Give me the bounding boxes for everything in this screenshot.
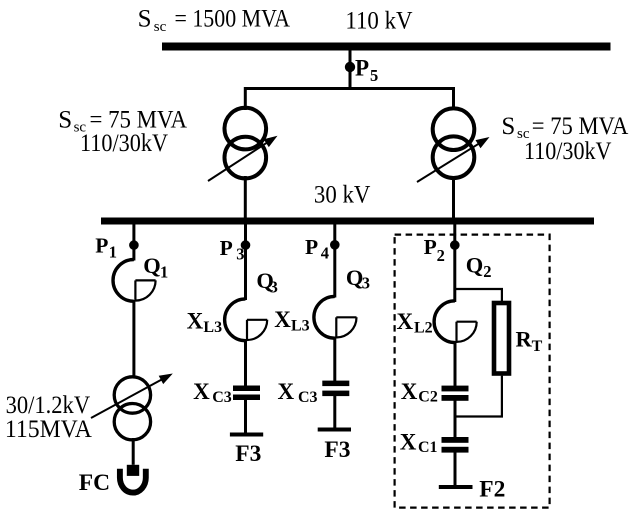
svg-text:110 kV: 110 kV xyxy=(345,7,412,34)
wire RT to junction xyxy=(456,376,502,417)
wire Q1 to furnace transformer xyxy=(132,300,135,378)
terminal F3 (P4) xyxy=(318,428,351,432)
wire P2 drop xyxy=(453,223,456,302)
svg-text:L3: L3 xyxy=(291,317,310,334)
wire T3 to furnace xyxy=(132,438,135,465)
wire T2 to 30kV bus xyxy=(452,176,455,219)
svg-text:C2: C2 xyxy=(418,389,438,406)
svg-text:3: 3 xyxy=(270,277,278,296)
svg-text:30 kV: 30 kV xyxy=(314,182,371,209)
reactor XL2 xyxy=(434,301,477,343)
resistor RT xyxy=(494,303,509,374)
svg-text:S: S xyxy=(58,106,72,133)
wire P5 vertical xyxy=(349,50,352,89)
wire XL3 to XC3 xyxy=(244,339,247,386)
wire P3 drop xyxy=(244,223,247,300)
wire XL3 to XC3 (P4) xyxy=(333,337,336,382)
terminal F3 (P3) xyxy=(230,433,263,437)
svg-text:C1: C1 xyxy=(418,439,438,456)
svg-text:C3: C3 xyxy=(298,389,318,406)
wire XC3 to F3 xyxy=(244,400,247,434)
svg-text:Q: Q xyxy=(143,253,161,278)
svg-text:2: 2 xyxy=(483,262,491,281)
svg-text:P: P xyxy=(95,234,108,258)
wire P4 drop xyxy=(333,223,336,298)
svg-text:sc: sc xyxy=(154,19,167,35)
capacitor XC3 (P4) xyxy=(322,381,349,387)
wire XC3 to F3 (P4) xyxy=(333,396,336,429)
svg-text:S: S xyxy=(501,113,515,140)
wire T1 to 30kV bus xyxy=(244,176,247,219)
busbar 30 kV xyxy=(101,218,594,225)
node P1 xyxy=(129,240,139,250)
wire left transformer drop xyxy=(244,87,247,110)
wire XL2 to XC2 xyxy=(454,341,457,386)
svg-text:FC: FC xyxy=(79,470,110,496)
svg-text:X: X xyxy=(397,309,414,334)
svg-text:F3: F3 xyxy=(324,437,350,463)
capacitor XC1 xyxy=(442,437,469,443)
reactor XL3 (P3) xyxy=(225,299,268,341)
transformer T2 tap arrow xyxy=(417,142,482,182)
node P2 xyxy=(450,240,460,250)
svg-text:X: X xyxy=(400,430,417,455)
svg-text:4: 4 xyxy=(321,243,329,262)
svg-text:= 1500 MVA: = 1500 MVA xyxy=(175,6,291,33)
wire P1 drop xyxy=(132,223,135,261)
svg-text:3: 3 xyxy=(236,244,244,263)
wire XC2 to junction and XC1 xyxy=(454,400,457,438)
svg-text:X: X xyxy=(187,309,204,334)
svg-text:X: X xyxy=(278,379,295,404)
reactor Q1 xyxy=(113,260,156,302)
transformer T1 tap arrow xyxy=(208,141,270,181)
transformer T1 xyxy=(225,108,267,179)
dashed enclosure F2 filter xyxy=(395,235,550,508)
capacitor XC2 xyxy=(442,386,469,392)
wire transformer feed horizontal xyxy=(245,87,454,90)
wire XC1 to F2 xyxy=(454,452,457,487)
furnace FC cup xyxy=(120,469,146,493)
svg-text:2: 2 xyxy=(437,246,445,265)
transformer T2 xyxy=(433,108,475,178)
node P4 xyxy=(330,240,340,250)
svg-text:110/30kV: 110/30kV xyxy=(80,130,168,157)
svg-text:1: 1 xyxy=(160,262,168,281)
wire right transformer drop xyxy=(452,87,455,110)
busbar 110 kV xyxy=(162,43,611,51)
svg-text:F3: F3 xyxy=(235,441,261,467)
terminal F2 xyxy=(439,485,473,489)
svg-text:R: R xyxy=(516,326,533,351)
furnace transformer tap arrow xyxy=(91,378,165,418)
svg-text:C3: C3 xyxy=(212,389,232,406)
svg-text:L2: L2 xyxy=(414,319,433,336)
svg-text:X: X xyxy=(401,379,418,404)
svg-text:1: 1 xyxy=(109,243,117,262)
svg-text:S: S xyxy=(138,6,152,33)
svg-text:T: T xyxy=(532,338,543,355)
wire branch to RT xyxy=(455,289,502,301)
svg-text:115MVA: 115MVA xyxy=(5,416,92,443)
node P3 xyxy=(241,240,251,250)
svg-text:X: X xyxy=(193,379,210,404)
furnace transformer T3 xyxy=(114,377,150,440)
capacitor XC3 (P3) xyxy=(233,386,260,392)
reactor XL3 (P4) xyxy=(314,296,357,338)
svg-text:P: P xyxy=(355,56,369,81)
svg-text:F2: F2 xyxy=(479,476,505,502)
svg-text:P: P xyxy=(424,235,437,259)
svg-text:110/30kV: 110/30kV xyxy=(524,138,612,165)
svg-text:P: P xyxy=(305,235,318,259)
svg-text:5: 5 xyxy=(370,66,378,85)
svg-text:X: X xyxy=(274,307,291,332)
svg-text:3: 3 xyxy=(362,274,370,293)
node P5 xyxy=(345,62,355,72)
svg-text:L3: L3 xyxy=(203,319,222,336)
furnace electrode square xyxy=(127,465,139,476)
svg-text:P: P xyxy=(220,236,233,260)
svg-text:Q: Q xyxy=(466,252,484,277)
svg-text:= 75 MVA: = 75 MVA xyxy=(532,113,629,140)
